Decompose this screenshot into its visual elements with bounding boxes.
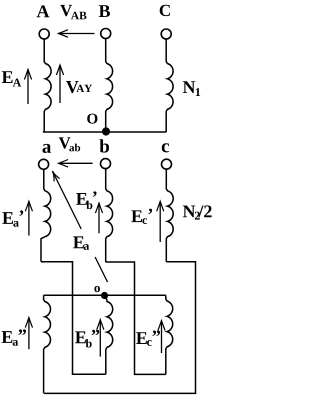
label o — [94, 286, 100, 292]
winding Eb-doubleprime — [105, 297, 113, 374]
winding N1 phase A — [44, 39, 51, 132]
winding Ea-prime — [41, 169, 51, 261]
wire neutral bus — [43, 131, 166, 133]
label A — [37, 5, 50, 17]
arrow Ea-doubleprime — [28, 318, 30, 350]
winding N1 phase B — [106, 39, 113, 132]
label O — [87, 114, 97, 124]
label V_AY — [66, 81, 79, 93]
label E_A — [2, 71, 13, 83]
wire a-phase link (Ea-prime bottom to Eb-doubleprime bottom) — [41, 262, 106, 375]
winding Ea-doubleprime — [44, 295, 51, 393]
terminal a — [39, 159, 49, 169]
label Eb-prime — [76, 193, 87, 205]
arrow Ec-prime — [159, 201, 161, 242]
label c — [162, 143, 169, 152]
arrow Eb-prime — [98, 203, 100, 233]
wire b-phase link (Eb-prime bottom to Ec-doubleprime bottom) — [106, 262, 166, 374]
terminal B — [101, 29, 111, 39]
label N2/2 — [183, 206, 195, 218]
arrow V_AB — [59, 33, 95, 35]
label b — [99, 139, 109, 152]
terminal b — [101, 159, 111, 169]
node o — [101, 292, 108, 299]
label B — [99, 5, 110, 17]
label N1 — [183, 81, 195, 93]
wire c-phase link (Ec-prime bottom to Ea-doubleprime bottom) — [44, 262, 195, 394]
terminal C — [161, 29, 171, 39]
terminal c — [162, 159, 172, 169]
arrow V_AY — [59, 65, 61, 103]
winding Eb-prime — [106, 169, 113, 262]
label C — [160, 5, 170, 16]
label V_ab — [59, 137, 71, 148]
winding N1 phase C — [166, 39, 173, 132]
label Eb-doubleprime — [75, 331, 86, 343]
node O — [102, 127, 110, 135]
label Ea-doubleprime — [2, 331, 13, 343]
label V_AB — [60, 5, 72, 16]
terminal A — [39, 29, 49, 39]
label Ea-prime — [2, 212, 13, 224]
label Ec-prime — [131, 210, 142, 222]
arrow Ea-prime — [28, 201, 30, 235]
arrow Ec-doubleprime — [161, 321, 163, 353]
winding Ec-doubleprime — [166, 295, 173, 374]
winding Ec-prime — [166, 169, 173, 262]
label Ec-doubleprime — [136, 332, 147, 344]
arrow Eb-doubleprime — [99, 320, 101, 357]
label a — [42, 144, 51, 153]
wire neutral o bus — [44, 294, 166, 296]
arrow E_A — [27, 70, 29, 105]
label Ea — [73, 236, 84, 248]
arrow V_ab — [59, 162, 93, 164]
arrow Ea (diagonal to terminal a, line broken at label) — [95, 257, 107, 282]
